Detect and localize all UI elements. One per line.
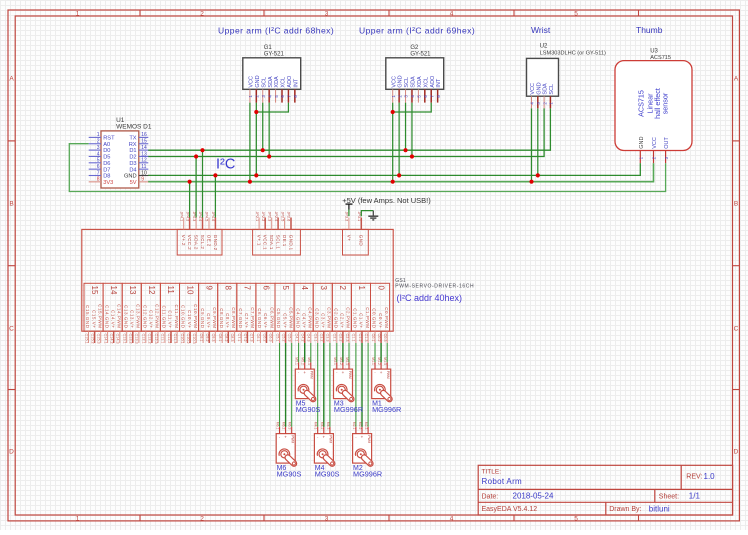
svg-text:JP4.2: JP4.2 bbox=[185, 212, 189, 222]
svg-text:C4.1: C4.1 bbox=[294, 334, 298, 342]
svg-text:C8.1: C8.1 bbox=[218, 334, 222, 342]
svg-text:D4: D4 bbox=[129, 167, 136, 173]
connector GS1 header JP2 (V+.1 VCC.1 SDA.1 SCL.1 OE.1 GND.1) bbox=[253, 212, 301, 256]
connector GS1 servo channel 13 bbox=[122, 283, 141, 343]
svg-text:C8.GND: C8.GND bbox=[219, 308, 224, 329]
svg-text:GY-521: GY-521 bbox=[410, 51, 431, 57]
svg-text:1: 1 bbox=[76, 515, 80, 522]
svg-text:A: A bbox=[734, 76, 739, 83]
svg-text:5: 5 bbox=[281, 286, 290, 291]
svg-text:M2.2: M2.2 bbox=[358, 422, 362, 430]
svg-text:10: 10 bbox=[185, 286, 194, 295]
svg-text:C0.2: C0.2 bbox=[377, 334, 381, 342]
wire G2.ADO to VCC tie bbox=[393, 103, 432, 112]
svg-text:C6.3: C6.3 bbox=[268, 334, 272, 342]
frame column ticks top bbox=[140, 10, 639, 16]
svg-text:GND: GND bbox=[124, 174, 137, 180]
svg-text:C14.3: C14.3 bbox=[116, 334, 120, 344]
svg-text:C3.1: C3.1 bbox=[314, 334, 318, 342]
wire G2.VCC to 5V bus bbox=[392, 103, 394, 182]
svg-text:VCC.2: VCC.2 bbox=[187, 235, 192, 250]
svg-text:D7: D7 bbox=[103, 167, 110, 173]
wire SCL bus (U1.D1) bbox=[148, 108, 550, 150]
svg-text:C10.V+: C10.V+ bbox=[187, 310, 192, 328]
svg-text:M3.1: M3.1 bbox=[333, 357, 337, 365]
connector GS1 servo channel 2 bbox=[332, 283, 351, 343]
servo M4 MG90S bbox=[314, 422, 340, 479]
svg-text:A: A bbox=[9, 76, 14, 83]
svg-text:11: 11 bbox=[141, 164, 146, 170]
svg-text:GND: GND bbox=[639, 137, 645, 149]
svg-text:A0: A0 bbox=[103, 142, 110, 148]
svg-text:1/1: 1/1 bbox=[689, 492, 701, 501]
wire GS1.SCL.2 to SCL bus bbox=[202, 150, 204, 217]
svg-text:Thumb: Thumb bbox=[636, 25, 663, 35]
svg-text:3V3: 3V3 bbox=[103, 180, 113, 186]
svg-text:G2: G2 bbox=[410, 45, 419, 51]
svg-text:C11.PWM: C11.PWM bbox=[174, 304, 179, 328]
wire G1.ADO to GND tie bbox=[256, 103, 288, 112]
svg-text:ACS715: ACS715 bbox=[636, 90, 645, 117]
svg-text:15: 15 bbox=[90, 286, 99, 295]
svg-text:V+.1: V+.1 bbox=[257, 235, 262, 246]
svg-text:C14.PWM: C14.PWM bbox=[117, 304, 122, 328]
connector GS1 servo channel 4 bbox=[294, 283, 313, 343]
svg-text:C13.2: C13.2 bbox=[129, 334, 133, 344]
title block outline bbox=[478, 465, 732, 515]
svg-text:+: + bbox=[361, 435, 364, 440]
svg-text:C8.2: C8.2 bbox=[224, 334, 228, 342]
svg-text:C5.2: C5.2 bbox=[281, 334, 285, 342]
svg-text:C15.1: C15.1 bbox=[84, 334, 88, 344]
svg-text:C6.2: C6.2 bbox=[262, 334, 266, 342]
svg-text:C3.3: C3.3 bbox=[326, 334, 330, 342]
svg-text:M1.1: M1.1 bbox=[371, 357, 375, 365]
svg-text:Upper arm (I²C addr 68hex): Upper arm (I²C addr 68hex) bbox=[218, 25, 334, 35]
svg-text:Sheet:: Sheet: bbox=[659, 494, 679, 501]
svg-text:C0.V+: C0.V+ bbox=[378, 313, 383, 328]
svg-text:D: D bbox=[734, 449, 739, 456]
wire SDA bus (U1.D2) bbox=[148, 108, 544, 156]
svg-text:SDA: SDA bbox=[411, 76, 417, 88]
svg-text:D0: D0 bbox=[103, 148, 110, 154]
svg-text:2: 2 bbox=[338, 286, 347, 291]
svg-text:1: 1 bbox=[97, 132, 100, 138]
svg-text:C7.V+: C7.V+ bbox=[244, 313, 249, 328]
servo M5 MG90S bbox=[295, 357, 321, 414]
svg-text:4: 4 bbox=[450, 515, 454, 522]
svg-text:JP2.4: JP2.4 bbox=[274, 212, 278, 222]
svg-text:MG90S: MG90S bbox=[296, 405, 321, 414]
svg-text:JP4.1: JP4.1 bbox=[179, 212, 183, 222]
svg-text:2: 2 bbox=[200, 515, 204, 522]
svg-text:JP4.6: JP4.6 bbox=[211, 212, 215, 222]
svg-text:D1: D1 bbox=[129, 148, 136, 154]
svg-text:4: 4 bbox=[97, 151, 100, 157]
svg-text:INT: INT bbox=[293, 78, 299, 88]
svg-text:LSM303DLHC (or GY-511): LSM303DLHC (or GY-511) bbox=[540, 51, 606, 57]
svg-text:1: 1 bbox=[357, 286, 366, 291]
connector GS1 servo channel 14 bbox=[103, 283, 122, 343]
connector GS1 servo channel 6 bbox=[256, 283, 275, 343]
svg-text:GY-521: GY-521 bbox=[264, 51, 285, 57]
svg-text:B: B bbox=[9, 201, 13, 208]
svg-text:M5.1: M5.1 bbox=[295, 357, 299, 365]
svg-text:XCL: XCL bbox=[281, 77, 287, 88]
svg-text:M3.2: M3.2 bbox=[339, 357, 343, 365]
svg-text:C10.1: C10.1 bbox=[180, 334, 184, 344]
svg-text:+: + bbox=[380, 370, 383, 375]
svg-text:OUT: OUT bbox=[664, 137, 670, 149]
svg-text:C11.1: C11.1 bbox=[161, 334, 165, 344]
svg-text:3: 3 bbox=[325, 515, 329, 522]
svg-text:9: 9 bbox=[204, 286, 213, 291]
svg-text:MG996R: MG996R bbox=[334, 405, 363, 414]
svg-text:1.0: 1.0 bbox=[704, 472, 716, 481]
svg-text:SCL.1: SCL.1 bbox=[276, 235, 281, 250]
svg-text:8: 8 bbox=[224, 286, 233, 291]
svg-text:Upper arm (I²C addr 69hex): Upper arm (I²C addr 69hex) bbox=[359, 25, 475, 35]
svg-text:D2: D2 bbox=[129, 155, 136, 161]
svg-text:C13.V+: C13.V+ bbox=[130, 310, 135, 328]
svg-text:C3.GND: C3.GND bbox=[314, 308, 319, 329]
svg-text:2018-05-24: 2018-05-24 bbox=[513, 492, 554, 501]
svg-text:D5: D5 bbox=[103, 155, 110, 161]
svg-text:XDA: XDA bbox=[274, 76, 280, 88]
svg-text:JP3.2: JP3.2 bbox=[345, 212, 349, 222]
svg-text:XCL: XCL bbox=[423, 77, 429, 88]
ground symbol bbox=[368, 211, 378, 220]
svg-text:M5.3: M5.3 bbox=[307, 357, 311, 365]
svg-text:C4.2: C4.2 bbox=[301, 334, 305, 342]
svg-text:Robot Arm: Robot Arm bbox=[482, 477, 523, 486]
servo M2 MG996R bbox=[352, 422, 382, 479]
svg-text:11: 11 bbox=[166, 286, 175, 295]
connector GS1 servo channel 5 bbox=[275, 283, 294, 343]
svg-text:U2: U2 bbox=[540, 44, 548, 50]
svg-text:C4.GND: C4.GND bbox=[295, 308, 300, 329]
svg-text:TITLE:: TITLE: bbox=[482, 469, 502, 476]
junction dot G2 ADO tie bbox=[391, 110, 395, 114]
svg-text:ADO: ADO bbox=[287, 75, 293, 88]
svg-text:C5.1: C5.1 bbox=[275, 334, 279, 342]
wire G1.SCL to SCL bus bbox=[262, 103, 264, 151]
frame column numbers bottom bbox=[76, 515, 579, 522]
svg-text:C7.3: C7.3 bbox=[249, 334, 253, 342]
svg-text:SCL: SCL bbox=[261, 77, 267, 88]
svg-text:5: 5 bbox=[574, 10, 578, 17]
wire GS1.SDA.2 to SDA bus bbox=[195, 157, 197, 218]
svg-text:XDA: XDA bbox=[417, 76, 423, 88]
svg-text:I²C: I²C bbox=[216, 156, 235, 172]
frame row ticks right bbox=[733, 141, 740, 390]
wire U2.VCC to 5V bus bbox=[531, 108, 533, 181]
servo M1 MG996R bbox=[371, 357, 401, 414]
svg-text:(I²C addr 40hex): (I²C addr 40hex) bbox=[397, 293, 463, 303]
svg-text:C2.GND: C2.GND bbox=[334, 308, 339, 329]
svg-text:15: 15 bbox=[141, 139, 147, 145]
svg-text:JP4.4: JP4.4 bbox=[198, 212, 202, 222]
svg-text:C9.PWM: C9.PWM bbox=[212, 307, 217, 328]
svg-text:M3.3: M3.3 bbox=[345, 357, 349, 365]
svg-text:12: 12 bbox=[147, 286, 156, 295]
svg-text:EasyEDA V5.4.12: EasyEDA V5.4.12 bbox=[482, 506, 538, 513]
svg-text:C11.V+: C11.V+ bbox=[168, 310, 173, 328]
svg-text:14: 14 bbox=[141, 145, 147, 151]
svg-text:Drawn By:: Drawn By: bbox=[609, 506, 641, 513]
wire GS1 channel 3 to servo bbox=[318, 343, 330, 427]
svg-text:C1.V+: C1.V+ bbox=[359, 313, 364, 328]
sensor G1 GY-521 bbox=[243, 45, 301, 103]
sensor U2 LSM303DLHC bbox=[527, 44, 607, 109]
svg-text:OE.2: OE.2 bbox=[206, 235, 211, 247]
svg-text:C15.2: C15.2 bbox=[90, 334, 94, 344]
svg-text:6: 6 bbox=[97, 164, 100, 170]
svg-text:PWM-SERVO-DRIVER-16CH: PWM-SERVO-DRIVER-16CH bbox=[395, 283, 474, 289]
svg-text:PWM: PWM bbox=[291, 435, 295, 443]
svg-text:C1.GND: C1.GND bbox=[353, 308, 358, 329]
svg-text:M2.3: M2.3 bbox=[364, 422, 368, 430]
svg-text:M6.2: M6.2 bbox=[282, 422, 286, 430]
svg-text:C3.PWM: C3.PWM bbox=[327, 307, 332, 328]
svg-text:C1.3: C1.3 bbox=[364, 334, 368, 342]
connector GS1 servo channel 15 bbox=[84, 283, 103, 343]
svg-text:C11.3: C11.3 bbox=[173, 334, 177, 344]
frame row letters left bbox=[9, 76, 14, 456]
servo M6 MG90S bbox=[276, 422, 302, 479]
connector GS1 servo channel 1 bbox=[351, 283, 370, 343]
svg-text:+: + bbox=[342, 370, 345, 375]
svg-text:+: + bbox=[303, 370, 306, 375]
svg-text:C12.V+: C12.V+ bbox=[149, 310, 154, 328]
svg-text:GND: GND bbox=[255, 75, 261, 87]
svg-text:C14.GND: C14.GND bbox=[104, 305, 109, 329]
wire 5V bus (U1.5V) bbox=[148, 163, 654, 182]
svg-text:SDA: SDA bbox=[543, 83, 549, 95]
svg-text:C2.3: C2.3 bbox=[345, 334, 349, 342]
svg-text:C5.GND: C5.GND bbox=[276, 308, 281, 329]
connector GS1 servo channel 10 bbox=[180, 283, 199, 343]
svg-text:C14.2: C14.2 bbox=[110, 334, 114, 344]
svg-text:MG996R: MG996R bbox=[372, 405, 401, 414]
svg-text:OE.1: OE.1 bbox=[282, 235, 287, 247]
svg-text:D8: D8 bbox=[103, 174, 110, 180]
svg-text:TX: TX bbox=[129, 136, 136, 142]
svg-text:C4.3: C4.3 bbox=[307, 334, 311, 342]
svg-text:C13.GND: C13.GND bbox=[123, 305, 128, 329]
svg-text:C0.PWM: C0.PWM bbox=[384, 307, 389, 328]
svg-text:M1.3: M1.3 bbox=[383, 357, 387, 365]
svg-text:M4.2: M4.2 bbox=[320, 422, 324, 430]
junction dots GND bus bbox=[213, 173, 540, 177]
svg-text:C7.GND: C7.GND bbox=[238, 308, 243, 329]
svg-text:JP4.5: JP4.5 bbox=[205, 212, 209, 222]
svg-text:V+: V+ bbox=[346, 235, 351, 241]
svg-text:M2.1: M2.1 bbox=[352, 422, 356, 430]
svg-text:C13.3: C13.3 bbox=[135, 334, 139, 344]
svg-text:JP2.6: JP2.6 bbox=[287, 212, 291, 222]
svg-text:M6.1: M6.1 bbox=[276, 422, 280, 430]
connector GS1 servo channel 7 bbox=[237, 283, 256, 343]
svg-text:C12.2: C12.2 bbox=[148, 334, 152, 344]
wire G1.VCC to 5V bus bbox=[249, 103, 251, 182]
svg-text:5V: 5V bbox=[130, 180, 137, 186]
svg-text:C10.PWM: C10.PWM bbox=[193, 304, 198, 328]
svg-text:14: 14 bbox=[109, 286, 118, 295]
svg-text:C15.PWM: C15.PWM bbox=[97, 304, 102, 328]
svg-text:2: 2 bbox=[97, 139, 100, 145]
svg-text:C1.2: C1.2 bbox=[358, 334, 362, 342]
svg-text:+5V (few Amps. Not USB!): +5V (few Amps. Not USB!) bbox=[342, 196, 431, 205]
svg-text:C12.GND: C12.GND bbox=[143, 305, 148, 329]
wire GS1.GND.2 to GND bus bbox=[214, 175, 216, 217]
svg-text:INT: INT bbox=[436, 78, 442, 88]
module GS1 PWM-SERVO-DRIVER-16CH outline bbox=[82, 229, 393, 331]
junction dots SCL bus bbox=[200, 148, 407, 152]
svg-text:C11.GND: C11.GND bbox=[162, 305, 167, 328]
svg-text:SDA: SDA bbox=[268, 76, 274, 88]
svg-text:C15.V+: C15.V+ bbox=[91, 310, 96, 328]
svg-text:7: 7 bbox=[97, 170, 100, 176]
svg-text:JP2.1: JP2.1 bbox=[255, 212, 259, 222]
power flag +5V bbox=[342, 196, 431, 209]
svg-text:1: 1 bbox=[76, 10, 80, 17]
wire G2.SCL to SCL bus bbox=[405, 103, 407, 151]
svg-text:B: B bbox=[734, 201, 738, 208]
frame row letters right bbox=[734, 76, 739, 456]
wire GS1 channel 0 to servo bbox=[375, 343, 387, 362]
title block Drawn By field bbox=[609, 505, 670, 514]
svg-text:10: 10 bbox=[141, 170, 147, 176]
svg-text:13: 13 bbox=[128, 286, 137, 295]
svg-text:C14.V+: C14.V+ bbox=[110, 310, 115, 328]
svg-text:C7.2: C7.2 bbox=[243, 334, 247, 342]
svg-text:3: 3 bbox=[325, 10, 329, 17]
svg-text:C9.GND: C9.GND bbox=[200, 308, 205, 329]
wire GS1 channel 1 to servo bbox=[356, 343, 368, 427]
svg-text:VCC: VCC bbox=[391, 76, 397, 88]
svg-text:M1.2: M1.2 bbox=[377, 357, 381, 365]
svg-text:C12.PWM: C12.PWM bbox=[155, 304, 160, 328]
svg-text:MG90S: MG90S bbox=[277, 469, 302, 478]
sensor U3 ACS715 bbox=[615, 49, 692, 164]
svg-text:C11.2: C11.2 bbox=[167, 334, 171, 344]
junction dots 5V bus bbox=[188, 180, 534, 184]
svg-text:C13.1: C13.1 bbox=[123, 334, 127, 344]
wire GS1.VCC.2 to 5V bus bbox=[189, 182, 191, 218]
svg-text:GND: GND bbox=[398, 75, 404, 87]
svg-text:M6.3: M6.3 bbox=[288, 422, 292, 430]
svg-text:C1.1: C1.1 bbox=[352, 334, 356, 342]
connector GS1 power header JP3 (V+ GND) bbox=[343, 212, 369, 256]
svg-text:JP3.1: JP3.1 bbox=[357, 212, 361, 222]
frame row ticks left bbox=[8, 141, 15, 390]
svg-text:D6: D6 bbox=[103, 161, 110, 167]
svg-text:ACS715: ACS715 bbox=[650, 55, 671, 61]
svg-text:C10.2: C10.2 bbox=[186, 334, 190, 344]
svg-text:C5.V+: C5.V+ bbox=[282, 313, 287, 328]
svg-text:C8.V+: C8.V+ bbox=[225, 313, 230, 328]
svg-text:MG90S: MG90S bbox=[315, 469, 340, 478]
svg-text:C1.PWM: C1.PWM bbox=[365, 307, 370, 328]
svg-text:C0.GND: C0.GND bbox=[372, 308, 377, 329]
svg-text:C10.GND: C10.GND bbox=[181, 305, 186, 329]
svg-text:VCC: VCC bbox=[249, 76, 255, 88]
svg-text:C9.1: C9.1 bbox=[199, 334, 203, 342]
svg-text:G1: G1 bbox=[264, 45, 273, 51]
svg-text:C8.PWM: C8.PWM bbox=[231, 307, 236, 328]
svg-text:PWM: PWM bbox=[367, 435, 371, 443]
svg-text:C9.3: C9.3 bbox=[211, 334, 215, 342]
wire U2.GND to GND bus bbox=[537, 108, 539, 175]
svg-text:9: 9 bbox=[141, 177, 144, 183]
wire G2.SDA to SDA bus bbox=[411, 103, 413, 157]
svg-text:5: 5 bbox=[574, 515, 578, 522]
svg-text:3: 3 bbox=[97, 145, 100, 151]
svg-text:C2.2: C2.2 bbox=[339, 334, 343, 342]
wire G1.SDA to SDA bus bbox=[268, 103, 270, 157]
svg-text:+: + bbox=[284, 435, 287, 440]
svg-text:JP2.5: JP2.5 bbox=[280, 212, 284, 222]
svg-text:C6.PWM: C6.PWM bbox=[269, 307, 274, 328]
svg-text:C4.V+: C4.V+ bbox=[301, 313, 306, 328]
svg-text:JP4.3: JP4.3 bbox=[192, 212, 196, 222]
svg-text:6: 6 bbox=[262, 286, 271, 291]
svg-text:C2.V+: C2.V+ bbox=[340, 313, 345, 328]
connector GS1 servo channel 12 bbox=[141, 283, 160, 343]
svg-text:C0.1: C0.1 bbox=[371, 334, 375, 342]
svg-text:PWM: PWM bbox=[310, 371, 314, 379]
wire GS1 channel 4 to servo bbox=[299, 343, 311, 362]
svg-text:Wrist: Wrist bbox=[531, 25, 551, 35]
svg-text:VCC: VCC bbox=[652, 137, 658, 149]
svg-text:C2.PWM: C2.PWM bbox=[346, 307, 351, 328]
frame column numbers top bbox=[76, 10, 579, 17]
svg-text:Date:: Date: bbox=[482, 494, 499, 501]
wire GS1 channel 2 to servo bbox=[337, 343, 349, 362]
title block Sheet field bbox=[659, 492, 701, 501]
svg-text:RST: RST bbox=[103, 136, 115, 142]
svg-text:C7.PWM: C7.PWM bbox=[250, 307, 255, 328]
svg-text:bitluni: bitluni bbox=[649, 505, 670, 514]
title block REV field bbox=[686, 472, 715, 481]
svg-text:13: 13 bbox=[141, 151, 147, 157]
svg-text:12: 12 bbox=[141, 158, 147, 164]
svg-text:PWM: PWM bbox=[386, 371, 390, 379]
wire G1.GND to GND bus bbox=[255, 103, 257, 176]
svg-text:C6.V+: C6.V+ bbox=[263, 313, 268, 328]
svg-text:JP2.2: JP2.2 bbox=[261, 212, 265, 222]
svg-text:+: + bbox=[322, 435, 325, 440]
svg-text:SDA.1: SDA.1 bbox=[269, 235, 274, 250]
wire GND bus (U1.GND) bbox=[148, 163, 640, 175]
wire GS1 channel 5 to servo bbox=[280, 343, 292, 427]
svg-text:C9.V+: C9.V+ bbox=[206, 313, 211, 328]
mcu U1 WEMOS D1 bbox=[89, 117, 152, 188]
svg-text:5: 5 bbox=[97, 158, 100, 164]
svg-text:C: C bbox=[734, 326, 739, 333]
sensor G2 GY-521 bbox=[386, 45, 444, 103]
svg-text:GND: GND bbox=[536, 82, 542, 94]
svg-text:GND.2: GND.2 bbox=[213, 235, 218, 251]
svg-text:C10.3: C10.3 bbox=[192, 334, 196, 344]
svg-text:V+.2: V+.2 bbox=[181, 235, 186, 246]
svg-text:GND.1: GND.1 bbox=[288, 235, 293, 251]
svg-text:C4.PWM: C4.PWM bbox=[308, 307, 313, 328]
svg-text:C6.GND: C6.GND bbox=[257, 308, 262, 329]
svg-text:C9.2: C9.2 bbox=[205, 334, 209, 342]
svg-text:VCC: VCC bbox=[530, 83, 536, 95]
